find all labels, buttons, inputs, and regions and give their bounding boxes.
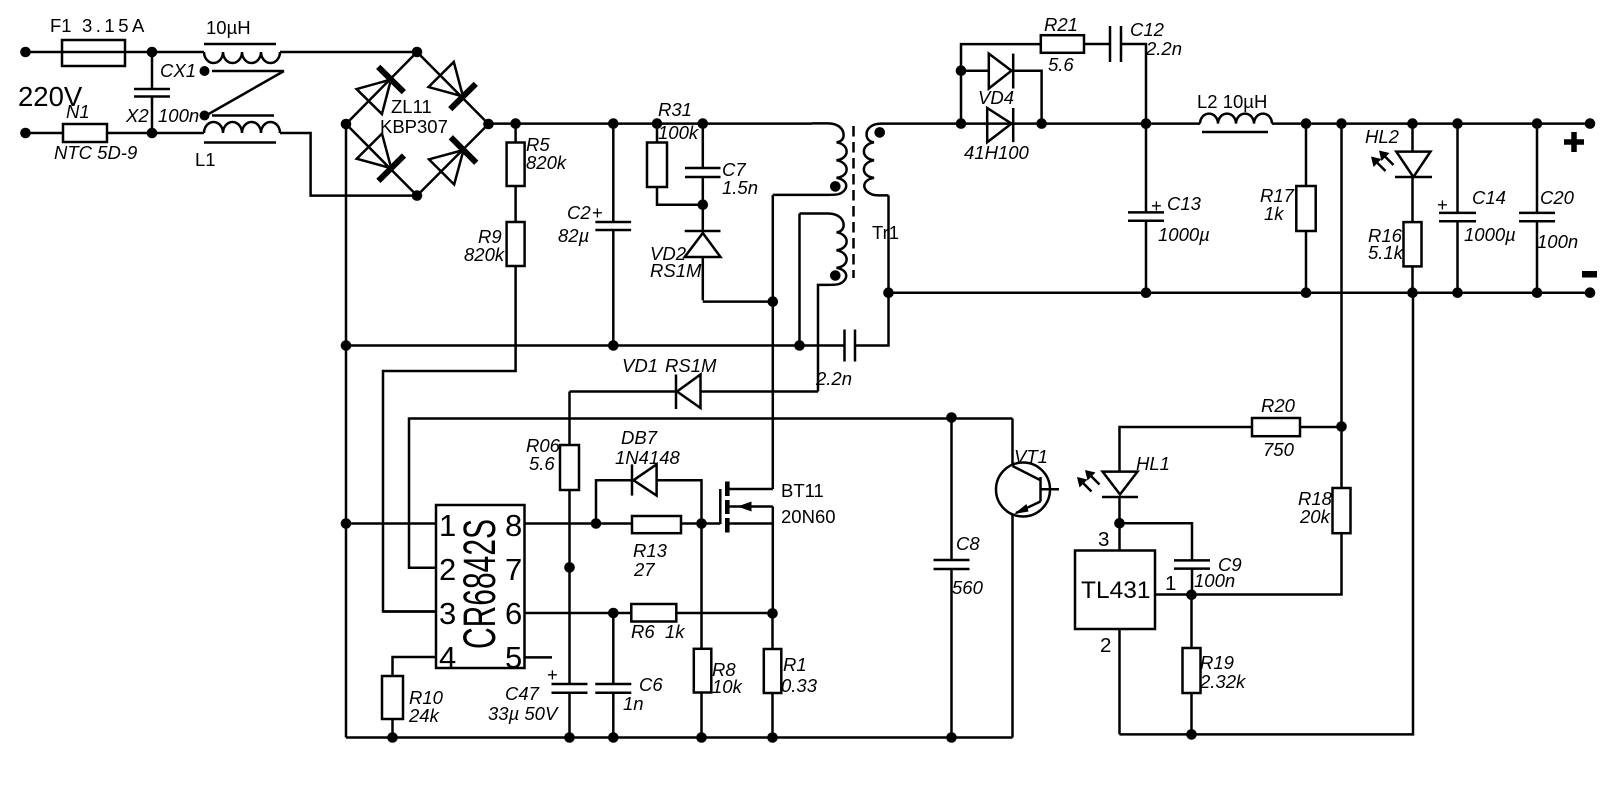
node VD4 left bbox=[956, 118, 967, 129]
wire source down to R1 bbox=[772, 507, 775, 614]
node R16 bottom bbox=[1407, 287, 1418, 298]
svg-text:C14: C14 bbox=[1472, 187, 1506, 208]
svg-text:10k: 10k bbox=[712, 676, 744, 697]
svg-text:2: 2 bbox=[1100, 634, 1111, 657]
wire TL431 ground rail bbox=[1120, 293, 1414, 735]
svg-text:+: + bbox=[592, 202, 603, 223]
node gate junction bbox=[696, 518, 707, 529]
mosfet BT11 20N60 bbox=[720, 480, 835, 533]
wire pin6 row R6 bbox=[525, 612, 632, 615]
svg-text:R31: R31 bbox=[658, 99, 692, 120]
wire pin2 to VT1 collector bbox=[409, 419, 1013, 568]
svg-text:750: 750 bbox=[1263, 439, 1295, 460]
transistor VT1 bbox=[996, 419, 1059, 738]
wire N1 to L1 bbox=[107, 132, 204, 135]
svg-text:RS1M: RS1M bbox=[665, 355, 717, 376]
svg-text:5.1k: 5.1k bbox=[1368, 242, 1405, 263]
node pin7 junction bbox=[564, 562, 575, 573]
node R20-R18 junction bbox=[1336, 421, 1347, 432]
svg-text:2.2n: 2.2n bbox=[815, 368, 852, 389]
LED HL2 bbox=[1365, 124, 1432, 223]
transformer Tr1 core bbox=[852, 126, 855, 278]
capacitor C14 1000u bbox=[1437, 124, 1516, 293]
svg-text:VD1: VD1 bbox=[622, 355, 658, 376]
svg-text:C47: C47 bbox=[505, 683, 540, 704]
svg-text:1: 1 bbox=[1165, 572, 1176, 595]
node TL431 ref node bbox=[1114, 518, 1125, 529]
node HL2 top bbox=[1407, 118, 1418, 129]
svg-text:24k: 24k bbox=[408, 705, 441, 726]
svg-text:HL2: HL2 bbox=[1365, 126, 1400, 147]
wire pin3 stub bbox=[383, 610, 436, 613]
svg-text:C13: C13 bbox=[1167, 193, 1202, 214]
svg-text:1N4148: 1N4148 bbox=[615, 447, 681, 468]
node junction CX1 bottom bbox=[147, 128, 158, 139]
node DB7 left junction bbox=[591, 518, 602, 529]
svg-text:CX1: CX1 bbox=[160, 60, 196, 81]
wire input top to fuse bbox=[26, 51, 63, 54]
wire fuse to choke bbox=[125, 51, 204, 54]
choke top winding 10uH bbox=[204, 17, 280, 63]
svg-text:0.33: 0.33 bbox=[781, 675, 818, 696]
wire bottom ground rail bbox=[346, 736, 1013, 739]
node R31 top bbox=[652, 118, 663, 129]
wire primary return down to node bbox=[772, 195, 775, 302]
bridge rectifier ZL11 KBP307 bbox=[346, 52, 489, 196]
node bridge right bbox=[483, 119, 494, 130]
svg-text:+: + bbox=[547, 664, 558, 685]
wire secondary to output bus bbox=[881, 122, 1200, 125]
svg-text:7: 7 bbox=[505, 552, 522, 587]
svg-text:41H100: 41H100 bbox=[964, 142, 1030, 163]
resistor R06 5.6 bbox=[526, 392, 579, 491]
wire R06 bottom through pin7 to C47 bbox=[568, 490, 571, 684]
svg-text:27: 27 bbox=[633, 559, 655, 580]
terminal input top bbox=[20, 47, 31, 58]
svg-text:HL1: HL1 bbox=[1136, 453, 1170, 474]
node C2 top bbox=[608, 118, 619, 129]
svg-text:KBP307: KBP307 bbox=[380, 116, 448, 137]
svg-text:C6: C6 bbox=[639, 674, 663, 695]
wire L2 to plus terminal bbox=[1272, 122, 1590, 125]
node R5 top bbox=[510, 118, 521, 129]
wire feedback drop x1341 bbox=[1340, 124, 1343, 488]
svg-text:33µ 50V: 33µ 50V bbox=[488, 703, 559, 724]
wire pin4 to R10 bbox=[393, 657, 437, 676]
transformer Tr1 primary winding bbox=[773, 123, 847, 194]
wire R5 to R9 bbox=[514, 186, 517, 222]
svg-text:L1: L1 bbox=[195, 149, 216, 170]
svg-text:100n: 100n bbox=[158, 105, 199, 126]
svg-text:820k: 820k bbox=[526, 152, 568, 173]
LED HL1 bbox=[1077, 427, 1252, 523]
node aux-top junction bbox=[794, 340, 805, 351]
wire input bottom to N1 bbox=[26, 132, 64, 135]
capacitor C6 1n bbox=[595, 613, 663, 738]
wire pin5 stub bbox=[525, 656, 553, 659]
svg-text:82µ: 82µ bbox=[558, 225, 589, 246]
choke coupling lines with phasing dots bbox=[200, 66, 285, 121]
resistor R8 10k bbox=[694, 649, 744, 738]
svg-text:NTC 5D-9: NTC 5D-9 bbox=[54, 142, 137, 163]
capacitor C7 1.5n bbox=[685, 124, 758, 205]
resistor R1 0.33 bbox=[764, 613, 818, 737]
svg-text:C2: C2 bbox=[567, 202, 591, 223]
svg-text:1.5n: 1.5n bbox=[722, 177, 758, 198]
svg-text:1000µ: 1000µ bbox=[1158, 224, 1210, 245]
resistor R9 820k bbox=[464, 222, 525, 266]
node C20 bottom bbox=[1532, 287, 1543, 298]
capacitor 2.2n primary-secondary bbox=[815, 293, 889, 389]
svg-text:5.6: 5.6 bbox=[1048, 54, 1074, 75]
node C9-R19 junction bbox=[1186, 590, 1197, 601]
node R1 bottom bbox=[767, 732, 778, 743]
wire rail 345 low-voltage bbox=[346, 344, 845, 347]
IC U1 CR6842S bbox=[436, 505, 525, 675]
diode VD4 upper bbox=[961, 54, 1042, 124]
svg-text:BT11: BT11 bbox=[781, 480, 824, 501]
resistor R6 1k bbox=[631, 604, 773, 642]
svg-text:20N60: 20N60 bbox=[781, 506, 836, 527]
terminal minus output bbox=[1582, 271, 1597, 298]
fuse F1 3.15A bbox=[50, 15, 148, 66]
svg-text:R1: R1 bbox=[783, 654, 807, 675]
node R17 bottom bbox=[1301, 287, 1312, 298]
thermistor N1 NTC 5D-9 bbox=[54, 101, 137, 163]
node C14 top bbox=[1452, 118, 1463, 129]
transformer Tr1 auxiliary winding bbox=[800, 214, 847, 392]
resistor R31 100k bbox=[647, 99, 700, 187]
node bridge top bbox=[412, 47, 423, 58]
wire drain up to primary return bbox=[772, 302, 775, 489]
wire R31 bottom to C7 bottom node bbox=[657, 187, 703, 205]
node C8 bottom bbox=[946, 732, 957, 743]
resistor R20 750 bbox=[1252, 395, 1342, 460]
svg-text:+: + bbox=[1437, 194, 1448, 215]
node C6 top junction bbox=[608, 608, 619, 619]
svg-text:R13: R13 bbox=[633, 540, 668, 561]
node C2 bottom junction bbox=[608, 340, 619, 351]
capacitor C13 1000u bbox=[1128, 124, 1210, 293]
svg-text:3: 3 bbox=[1098, 528, 1109, 551]
svg-text:TL431: TL431 bbox=[1081, 577, 1150, 604]
capacitor C2 82u bbox=[558, 124, 631, 346]
wire snubber branch up bbox=[961, 44, 1041, 124]
resistor R21 5.6 bbox=[1041, 14, 1084, 75]
svg-text:3.15A: 3.15A bbox=[82, 15, 148, 36]
node rail-left junction bbox=[341, 340, 352, 351]
svg-text:Tr1: Tr1 bbox=[872, 222, 899, 243]
capacitor C47 33u 50V bbox=[488, 664, 588, 738]
node secondary-bottom rail junction bbox=[883, 287, 894, 298]
node bridge left bbox=[341, 119, 352, 130]
node R19 bottom bbox=[1186, 729, 1197, 740]
node C7-VD2 junction bbox=[698, 199, 709, 210]
diode VD4 lower 41H100 bbox=[964, 87, 1030, 163]
node C6 bottom bbox=[608, 732, 619, 743]
capacitor C9 100n bbox=[1120, 523, 1242, 594]
wire secondary bottom down bbox=[887, 195, 890, 292]
svg-text:R20: R20 bbox=[1261, 395, 1296, 416]
wire HV bus to transformer primary bbox=[489, 122, 813, 125]
node C13 top bbox=[1141, 118, 1152, 129]
svg-text:C8: C8 bbox=[956, 533, 980, 554]
svg-text:560: 560 bbox=[952, 577, 984, 598]
transformer Tr1 secondary winding bbox=[864, 124, 899, 243]
wire gate node to R8 bbox=[700, 524, 703, 649]
node C8 top bbox=[946, 412, 957, 423]
svg-text:R19: R19 bbox=[1200, 652, 1234, 673]
node R8 bottom bbox=[696, 732, 707, 743]
wire C12 down to bus bbox=[1121, 44, 1146, 124]
svg-text:X2: X2 bbox=[125, 105, 149, 126]
node C47 bottom bbox=[564, 732, 575, 743]
svg-text:100n: 100n bbox=[1194, 570, 1235, 591]
svg-text:1n: 1n bbox=[623, 693, 644, 714]
wire VD2 bottom to primary-return node bbox=[703, 257, 773, 302]
resistor R13 27 bbox=[632, 516, 720, 580]
node C7 top bbox=[698, 118, 709, 129]
svg-text:5: 5 bbox=[505, 640, 522, 675]
svg-text:CR6842S: CR6842S bbox=[454, 519, 505, 649]
terminal input bottom bbox=[20, 128, 31, 139]
wire L1 out to bridge bottom bbox=[280, 133, 417, 196]
svg-text:1k: 1k bbox=[1264, 203, 1285, 224]
wire R9 bottom to pin3 bend bbox=[383, 266, 516, 612]
wire choke top to bridge bbox=[280, 51, 417, 54]
diode VD2 RS1M bbox=[650, 205, 721, 281]
node junction CX1 top bbox=[147, 47, 158, 58]
node R17 top bbox=[1301, 118, 1312, 129]
regulator U2 TL431 bbox=[1075, 523, 1176, 734]
svg-text:ZL11: ZL11 bbox=[391, 96, 432, 117]
capacitor C8 560 bbox=[934, 418, 984, 738]
resistor R5 820k bbox=[507, 124, 568, 186]
wire aux top to rail bbox=[798, 214, 801, 346]
capacitor CX1 X2 100n bbox=[125, 52, 199, 133]
svg-text:L2 10µH: L2 10µH bbox=[1197, 91, 1267, 112]
svg-text:F1: F1 bbox=[50, 15, 72, 36]
node upper diode left bbox=[956, 65, 967, 76]
svg-text:+: + bbox=[1151, 195, 1162, 216]
wire R21 to C12 bbox=[1084, 43, 1110, 46]
svg-text:10µH: 10µH bbox=[206, 17, 251, 38]
svg-text:6: 6 bbox=[505, 596, 522, 631]
svg-text:DB7: DB7 bbox=[621, 427, 658, 448]
resistor R17 1k bbox=[1260, 124, 1316, 293]
inductor L1 bottom winding bbox=[195, 122, 280, 170]
diode VD1 RS1M bbox=[570, 355, 819, 409]
node primary return junction bbox=[768, 296, 779, 307]
wire negative rail bbox=[889, 291, 1591, 294]
svg-text:VT1: VT1 bbox=[1014, 446, 1048, 467]
resistor R16 5.1k bbox=[1368, 222, 1422, 293]
svg-text:2.2n: 2.2n bbox=[1145, 38, 1182, 59]
node feedback tap top bbox=[1336, 118, 1347, 129]
node C13 bottom bbox=[1141, 287, 1152, 298]
capacitor C12 2.2n bbox=[1110, 19, 1182, 62]
svg-text:RS1M: RS1M bbox=[650, 260, 702, 281]
node pin1 junction x346 bbox=[341, 518, 352, 529]
terminal plus output bbox=[1564, 118, 1595, 152]
node C20 top bbox=[1532, 118, 1543, 129]
svg-text:8: 8 bbox=[505, 508, 522, 543]
wire pin8 row bbox=[525, 522, 633, 525]
svg-text:VD4: VD4 bbox=[978, 87, 1014, 108]
node bridge bottom bbox=[412, 190, 423, 201]
node R10 bottom bbox=[387, 732, 398, 743]
svg-text:N1: N1 bbox=[66, 101, 90, 122]
svg-text:2.32k: 2.32k bbox=[1199, 671, 1247, 692]
svg-text:20k: 20k bbox=[1299, 506, 1332, 527]
resistor R10 24k bbox=[382, 676, 444, 738]
svg-text:100n: 100n bbox=[1537, 231, 1578, 252]
svg-text:820k: 820k bbox=[464, 244, 506, 265]
svg-text:5.6: 5.6 bbox=[529, 453, 555, 474]
svg-text:C12: C12 bbox=[1130, 19, 1165, 40]
capacitor C20 100n bbox=[1519, 124, 1578, 293]
svg-text:R21: R21 bbox=[1044, 14, 1078, 35]
svg-text:100k: 100k bbox=[658, 122, 700, 143]
wire left vertical bus x346 bbox=[345, 124, 348, 738]
svg-text:1000µ: 1000µ bbox=[1464, 224, 1516, 245]
node VD4 right bbox=[1036, 118, 1047, 129]
resistor R18 20k bbox=[1155, 488, 1351, 595]
svg-text:R6 1k: R6 1k bbox=[631, 621, 686, 642]
diode DB7 1N4148 bbox=[596, 427, 702, 524]
node source-R1 junction bbox=[767, 608, 778, 619]
inductor L2 10uH bbox=[1197, 91, 1272, 132]
wire pin1 bbox=[346, 522, 436, 525]
resistor R19 2.32k bbox=[1183, 595, 1248, 735]
svg-text:C20: C20 bbox=[1540, 187, 1575, 208]
node C14 bottom bbox=[1452, 287, 1463, 298]
